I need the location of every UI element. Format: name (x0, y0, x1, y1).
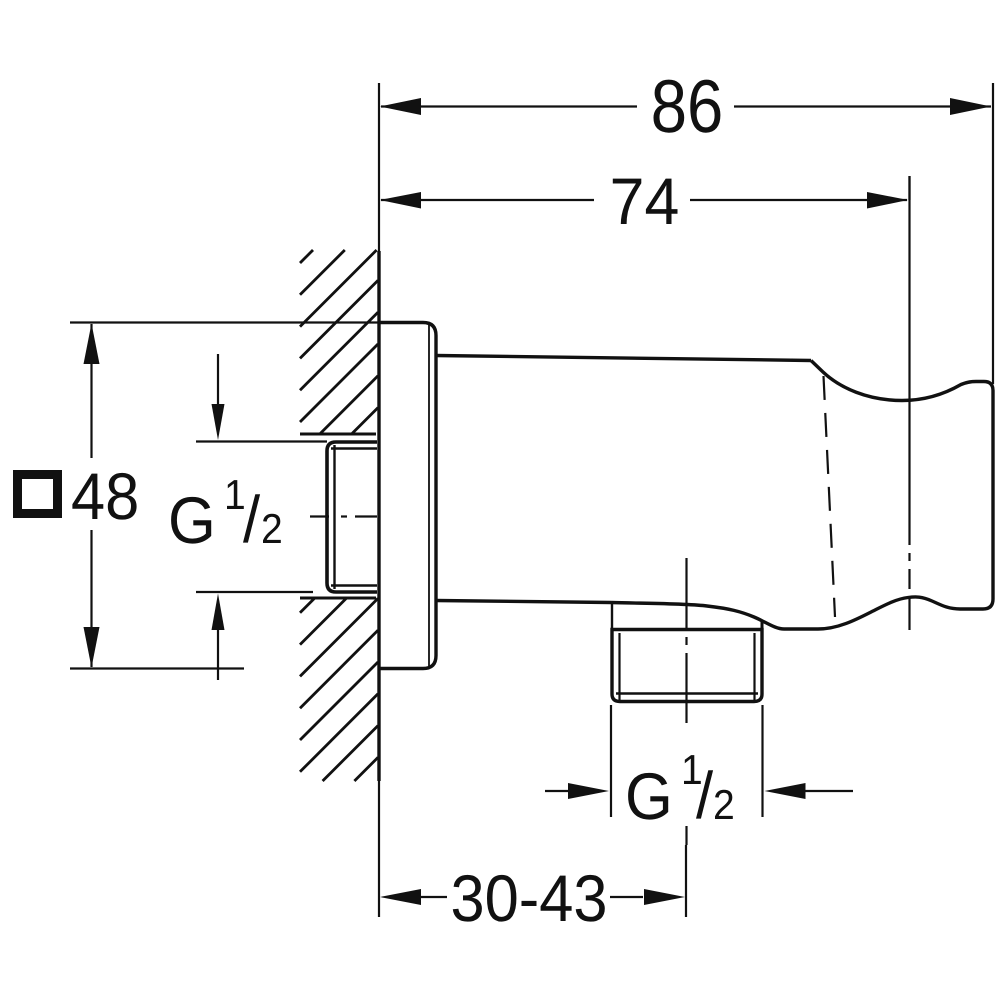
dim 48 label (72, 473, 136, 520)
lower G1/2 right arrow (801, 790, 853, 792)
nipple thread top line (331, 447, 377, 449)
dim 48 top arrowhead (84, 324, 100, 365)
dim 74 left arrowhead (380, 192, 421, 209)
dim 74 line right segment (690, 199, 907, 201)
outlet nut outline (612, 630, 762, 702)
body bottom silhouette (to outlet boss) (436, 601, 611, 603)
dim 74 line left segment (381, 199, 594, 201)
inner dim top extension line (196, 440, 327, 442)
inner dim top arrow (217, 354, 219, 404)
inner dim bottom extension line (196, 591, 313, 593)
dim 86 left arrowhead (380, 98, 421, 115)
nipple thread bottom line (331, 584, 377, 586)
wall opening top edge (300, 433, 376, 436)
inner dim bottom arrow (217, 630, 219, 680)
holder outline (top, right face, underside) (611, 361, 993, 630)
dim 48 line lower segment (90, 530, 92, 667)
outlet boss left edge (611, 603, 613, 630)
dim 74 label (613, 179, 678, 224)
wall opening bottom edge (300, 597, 376, 600)
nut inner right line (753, 633, 755, 700)
left G1/2 label (171, 480, 281, 543)
lower G1/2 label (628, 755, 733, 820)
dim 86 line right segment (734, 105, 991, 107)
dim 74 extension line right (908, 176, 910, 200)
dim 86 label (654, 80, 721, 133)
dim 30-43 ext line right (685, 845, 687, 917)
dim 74 right arrowhead (867, 192, 908, 209)
dim 30-43 line right segment (610, 896, 643, 898)
outlet centerline (685, 558, 687, 723)
dim 30-43 ext line left (378, 781, 380, 917)
wall surface line (377, 251, 380, 781)
dim 86 extension line right (992, 83, 994, 384)
dim 30-43 label (453, 875, 605, 922)
lower G1/2 ext line left (610, 705, 612, 817)
dim 30-43 line left segment (421, 896, 447, 898)
outlet boss right edge (761, 620, 764, 631)
dim 86 line left segment (381, 105, 637, 107)
wall hatching (300, 250, 378, 781)
escutcheon wall plate (378, 323, 436, 669)
nipple thread core vertical line (333, 445, 335, 589)
dim 48 bottom arrowhead (84, 627, 100, 668)
dim 86 right arrowhead (950, 98, 991, 115)
dim 48 extension line bottom (70, 667, 244, 669)
holder axis centerline (908, 176, 910, 630)
nipple centerline (dash-dot) (310, 515, 377, 517)
nut inner left line (618, 633, 620, 700)
body top silhouette (436, 356, 811, 361)
square section symbol (18, 475, 58, 514)
lower G1/2 ext line right (761, 705, 763, 817)
concealed G1/2 nipple outline (327, 442, 377, 592)
cone end dashed edge (824, 376, 836, 617)
dim 30-43 left arrowhead (380, 889, 421, 905)
dim 48 extension line top (70, 321, 378, 323)
dim 48 line upper segment (90, 324, 92, 458)
plate face edge line (428, 325, 430, 666)
dim 86 extension line left (wall, above) (378, 83, 380, 251)
nut inner bottom line (616, 692, 758, 695)
dim 30-43 right arrowhead (644, 889, 685, 905)
lower G1/2 left arrow (545, 790, 572, 792)
